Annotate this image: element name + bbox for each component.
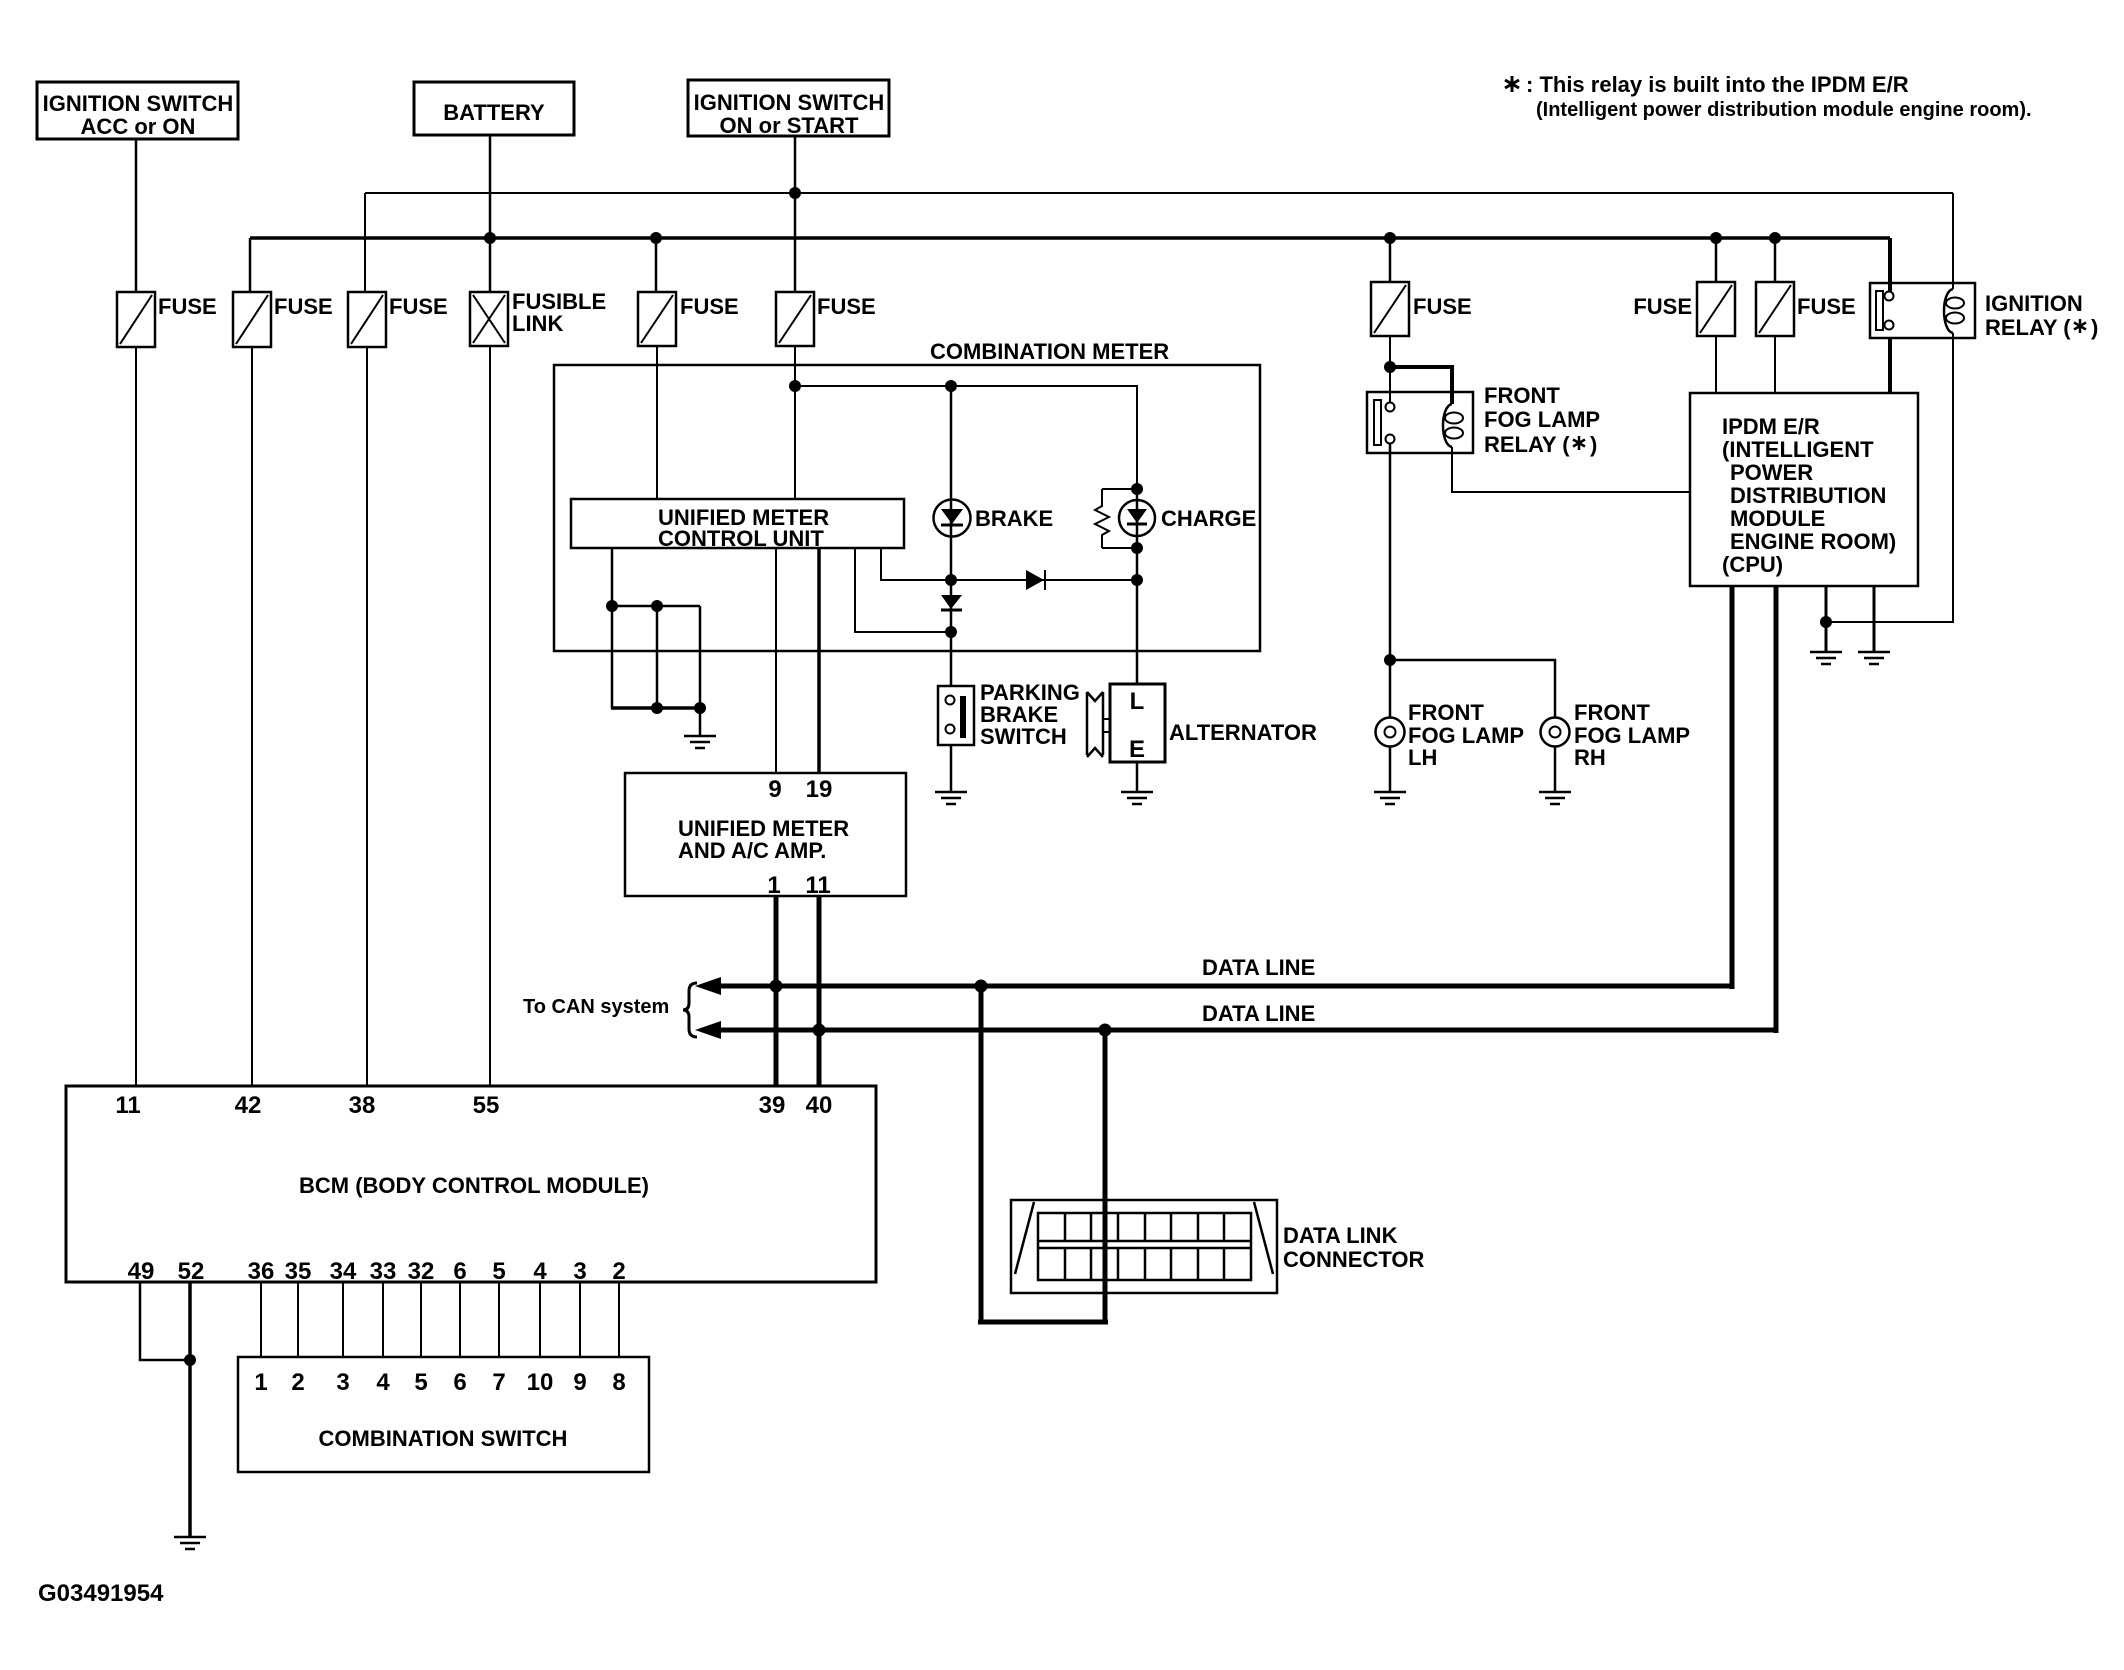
ground: front fog lamp LH ground [1374,792,1406,804]
junction: fog lamp branch node [1384,654,1396,666]
svg-text:4: 4 [533,1258,547,1285]
svg-text:FUSE: FUSE [1797,294,1856,319]
switch S1: PARKING BRAKE SWITCH [938,686,974,745]
svg-text:IGNITION SWITCH: IGNITION SWITCH [43,91,234,116]
svg-text:RELAY (: RELAY ( [1985,315,2071,340]
svg-text:FOG LAMP: FOG LAMP [1484,407,1600,432]
wire: bus tap down to fuse F6 [1389,238,1392,282]
arrow: data line 1 to CAN system [695,977,721,995]
fuse F5 [776,292,814,346]
svg-text:DISTRIBUTION: DISTRIBUTION [1730,483,1886,508]
svg-text:FUSE: FUSE [680,294,739,319]
power source box: BATTERY [414,82,574,135]
relay K2: IGNITION RELAY body [1870,283,1975,338]
svg-text:11: 11 [805,872,830,899]
svg-text:IGNITION SWITCH: IGNITION SWITCH [694,90,885,115]
svg-text:36: 36 [248,1258,275,1285]
ground: alternator ground [1121,792,1153,804]
wire: parking brake switch to ground [950,745,953,792]
svg-text:COMBINATION SWITCH: COMBINATION SWITCH [319,1426,568,1451]
svg-text:35: 35 [285,1258,312,1285]
wire: UMCU stub to brake lamp node [855,548,951,632]
junction: ground net left node [606,600,618,612]
svg-text:1: 1 [254,1369,267,1396]
wire: data line 1 (upper CAN line) [712,586,1734,989]
svg-text:FUSE: FUSE [158,294,217,319]
svg-text:IGNITION: IGNITION [1985,291,2083,316]
svg-text:FUSE: FUSE [817,294,876,319]
svg-text:4: 4 [376,1369,390,1396]
wire: bus corner down to fuse F2 [249,238,252,292]
wire: fuse F4 down into unified meter control unit [656,346,658,499]
diode D2 (brake branch, pointing down) [941,595,962,610]
junction: battery bus at battery lead [484,232,496,244]
junction: BCM pin 49/52 ground node [184,1354,196,1366]
wire: bus right corner down into ignition relay contact [1888,238,1892,291]
svg-text:): ) [2091,315,2098,340]
arrow: data line 2 to CAN system [695,1021,721,1039]
svg-text:COMBINATION METER: COMBINATION METER [930,339,1169,364]
wire: fuse F5 down into unified meter control unit [794,346,796,499]
junction: charge loop bottom [1131,542,1143,554]
junction: IPDM ground / relay coil return node [1820,616,1832,628]
svg-text:To CAN system: To CAN system [523,996,669,1018]
wire: UMCU pin 9 line to unified meter and A/C amp [775,548,777,773]
svg-text:11: 11 [115,1092,140,1119]
svg-text:49: 49 [128,1258,155,1285]
svg-text:L: L [1130,688,1145,715]
junction: ignition ON feed node [789,187,801,199]
wire: UMCU pin 19 line to unified meter and A/C amp [817,548,821,773]
wire: BCM pin 49 jog to ground line [140,1282,190,1360]
label: UNIFIED METER CONTROL UNIT [658,505,829,551]
wire: fuse F2 to BCM pin 42 [251,347,253,1086]
svg-text:CHARGE: CHARGE [1161,506,1256,531]
junction: lamp feed at brake branch [945,380,957,392]
component box: IPDM E/R (CPU) [1690,393,1918,586]
svg-text:8: 8 [612,1369,625,1396]
svg-text:FUSE: FUSE [1413,294,1472,319]
wire: thick branch to front fog lamp relay coil [1390,367,1452,404]
junction: data line 1 at pin 39 [770,980,783,993]
junction: brake branch at UMCU stub [945,626,957,638]
svg-text:3: 3 [573,1258,586,1285]
component box: COMBINATION METER [554,365,1260,651]
svg-text:19: 19 [806,776,833,803]
svg-text:ALTERNATOR: ALTERNATOR [1169,720,1317,745]
diode D1 (series, pointing right) [1026,570,1045,590]
svg-text:FUSE: FUSE [389,294,448,319]
svg-text:BRAKE: BRAKE [975,506,1053,531]
label: IGNITION SWITCH ON or START [694,90,885,138]
svg-text:FUSE: FUSE [274,294,333,319]
label: IGNITION RELAY (*) [1985,291,2098,340]
svg-text:G03491954: G03491954 [38,1580,164,1607]
note: relay built into IPDM E/R [1505,72,2032,121]
wire: alternator E to ground [1136,762,1139,792]
svg-text:AND A/C AMP.: AND A/C AMP. [678,838,826,863]
wire: second horizontal bus (battery feed, thick) [250,236,1890,240]
fuse F2 [233,292,271,347]
svg-text:5: 5 [414,1369,427,1396]
component box: UNIFIED METER AND A/C AMP [625,773,906,896]
wire: fog relay contact down to front fog lamps [1389,443,1392,718]
svg-text:DATA LINE: DATA LINE [1202,955,1315,980]
wire: brake lamp branch down to parking brake switch [950,386,953,686]
ground: BCM pin 52 ground [174,1537,206,1549]
svg-text:32: 32 [408,1258,435,1285]
junction: data line 2 at pin 40 [813,1024,826,1037]
svg-text:BATTERY: BATTERY [443,100,545,125]
junction: ground net bottom middle [651,702,663,714]
junction: charge loop top [1131,483,1143,495]
svg-text:POWER: POWER [1730,460,1813,485]
wire: BCM pin 52 to ground [188,1282,192,1537]
relay K1: FRONT FOG LAMP RELAY body [1367,392,1473,453]
svg-text:ENGINE ROOM): ENGINE ROOM) [1730,529,1896,554]
wire: A/C amp pin 11 to BCM pin 40 (CAN) [817,896,822,1086]
svg-text:55: 55 [473,1092,500,1119]
wire: branch to front fog lamp RH [1390,660,1555,718]
wire: ignition switch ACC lead down to fuse F1 [135,139,138,292]
svg-text:FRONT: FRONT [1574,700,1650,725]
wire: fuse F6 down into front fog lamp relay contact [1389,336,1391,403]
svg-text:E: E [1129,736,1145,763]
ground: IPDM ground 1 [1810,652,1842,664]
svg-text:BCM (BODY CONTROL MODULE): BCM (BODY CONTROL MODULE) [299,1173,649,1198]
svg-text:LH: LH [1408,745,1437,770]
label: FRONT FOG LAMP LH [1408,700,1524,770]
svg-text:9: 9 [768,776,781,803]
svg-text:6: 6 [453,1369,466,1396]
svg-text:RELAY (: RELAY ( [1484,432,1570,457]
resistor R1 (parallel with charge lamp) [1095,489,1109,548]
connector: DATA LINK CONNECTOR [1011,1200,1277,1293]
svg-text:40: 40 [806,1092,833,1119]
svg-text:39: 39 [759,1092,786,1119]
wire: IPDM ground lead 1 [1825,586,1828,651]
junction: diode line at charge branch [1131,574,1143,586]
svg-text:CONTROL UNIT: CONTROL UNIT [658,526,824,551]
wire: lamp feed inside combination meter [795,386,1137,489]
wire: ignition switch ON/START lead down to fuse F5 [794,136,797,292]
junction: battery bus at fuse F6 [1384,232,1396,244]
junction: battery bus at fuse F7 [1710,232,1722,244]
fuse F7 [1697,282,1735,336]
component box: COMBINATION SWITCH [238,1357,649,1472]
svg-text:10: 10 [527,1369,554,1396]
wire: battery lead down to fusible link [489,135,492,292]
junction: diode line at brake branch [945,574,957,586]
wire: data line 1 branch down to data link connector loop [979,986,984,1324]
wire: fuse F8 to IPDM E/R [1774,336,1776,393]
wire: fusible link to BCM pin 55 [489,346,491,1086]
fuse F8 [1756,282,1794,336]
fusible link FL [470,292,508,346]
component box: UNIFIED METER CONTROL UNIT U1 [571,499,904,548]
fuse F6 [1371,282,1409,336]
wire: bus tap down to fuse F7 [1715,238,1718,282]
brace: CAN system brace [683,983,697,1037]
wire: fuse F7 to IPDM E/R [1715,336,1717,393]
svg-text:6: 6 [453,1258,466,1285]
wire: charge lamp parallel loop [1102,489,1137,548]
svg-text:DATA LINK: DATA LINK [1283,1223,1398,1248]
svg-text:: This relay is built into the: : This relay is built into the IPDM E/R [1526,72,1909,97]
junction: data line 1 at connector branch [975,980,988,993]
svg-text:52: 52 [178,1258,205,1285]
wire: fog relay coil to IPDM E/R left side [1452,447,1690,492]
ground: UMCU ground [684,736,716,748]
svg-text:34: 34 [330,1258,357,1285]
svg-text:9: 9 [573,1369,586,1396]
wire: IPDM ground lead 2 [1873,586,1876,651]
svg-text:5: 5 [492,1258,505,1285]
svg-text:ON or START: ON or START [720,113,859,138]
junction: ground net bottom right [694,702,706,714]
component box: BCM (BODY CONTROL MODULE) [66,1086,876,1282]
label: FRONT FOG LAMP RELAY (*) [1484,383,1600,457]
indicator lamp: BRAKE warning lamp [934,500,971,537]
wire: front fog lamp LH to ground [1389,746,1392,792]
junction: battery bus at fuse F8 [1769,232,1781,244]
label: FUSIBLE LINK [512,289,606,336]
label: UNIFIED METER AND A/C AMP [678,816,849,863]
wire: bus right end down to ignition relay coil and coil return to ground node [1826,193,1953,622]
svg-text:3: 3 [336,1369,349,1396]
wire: data link connector bottom loop [978,1320,1108,1325]
svg-text:CONNECTOR: CONNECTOR [1283,1247,1424,1272]
svg-text:2: 2 [291,1369,304,1396]
svg-text:MODULE: MODULE [1730,506,1825,531]
wire: UMCU ground network [611,548,701,736]
svg-text:DATA LINE: DATA LINE [1202,1001,1315,1026]
svg-text:RH: RH [1574,745,1606,770]
wire: front fog lamp RH to ground [1554,746,1557,792]
svg-text:7: 7 [492,1369,505,1396]
alternator A1 body with pins L and E [1087,684,1165,762]
lamp: FRONT FOG LAMP LH [1376,718,1405,747]
lamp: FRONT FOG LAMP RH [1541,718,1570,747]
wire: bus corner down to fuse F3 [364,193,366,292]
svg-text:33: 33 [370,1258,397,1285]
svg-text:LINK: LINK [512,311,563,336]
fuse F4 [638,292,676,346]
svg-text:(CPU): (CPU) [1722,552,1783,577]
svg-text:SWITCH: SWITCH [980,724,1067,749]
svg-text:FRONT: FRONT [1408,700,1484,725]
wire: fuse F1 to BCM pin 11 [135,347,137,1086]
svg-text:): ) [1590,432,1597,457]
wire: data line 2 (lower CAN line) [712,586,1778,1033]
svg-text:(Intelligent power distributio: (Intelligent power distribution module e… [1536,99,2032,121]
svg-text:2: 2 [612,1258,625,1285]
wire: top horizontal bus (ignition ON feed) [365,192,1953,194]
junction: lamp feed at fuse F5 line [789,380,801,392]
svg-text:IPDM E/R: IPDM E/R [1722,414,1820,439]
svg-text:ACC or ON: ACC or ON [81,114,196,139]
label: IGNITION SWITCH ACC or ON [43,91,234,139]
fuse F3 [348,292,386,347]
wire: UMCU stub to diode line [881,548,1137,580]
svg-text:1: 1 [767,872,780,899]
label: FRONT FOG LAMP RH [1574,700,1690,770]
wire: A/C amp pin 1 to BCM pin 39 (CAN) [774,896,779,1086]
junction: data line 2 at connector branch [1099,1024,1112,1037]
junction: battery bus at fuse F4 [650,232,662,244]
power source box: IGNITION SWITCH ACC or ON [37,82,238,139]
indicator lamp: CHARGE warning lamp [1119,500,1155,536]
wire: bus tap down to fuse F4 [655,238,658,292]
ground: parking brake switch ground [935,792,967,804]
wire: data line 2 branch down through data link connector [1103,1030,1108,1324]
power source box: IGNITION SWITCH ON or START [688,80,889,136]
svg-text:FRONT: FRONT [1484,383,1560,408]
wire: bus tap down to fuse F8 [1774,238,1777,282]
svg-text:38: 38 [349,1092,376,1119]
svg-text:42: 42 [235,1092,262,1119]
svg-text:FUSE: FUSE [1633,294,1692,319]
label: PARKING BRAKE SWITCH [980,680,1080,749]
ground: IPDM ground 2 [1858,652,1890,664]
wire: charge lamp branch down to alternator L [1136,489,1139,685]
ground: front fog lamp RH ground [1539,792,1571,804]
svg-text:(INTELLIGENT: (INTELLIGENT [1722,437,1874,462]
wire: fuse F3 to BCM pin 38 [366,347,368,1086]
junction: fog relay feed node [1384,361,1396,373]
wire: ignition relay contact to IPDM E/R [1888,338,1892,393]
wires: BCM bottom pins to combination switch [261,1282,619,1357]
fuse F1 [117,292,155,347]
junction: ground net middle node [651,600,663,612]
label: IPDM E/R (INTELLIGENT POWER DISTRIBUTION MODULE ENGINE ROOM) (CPU) [1722,414,1896,577]
label: DATA LINK CONNECTOR [1283,1223,1424,1272]
